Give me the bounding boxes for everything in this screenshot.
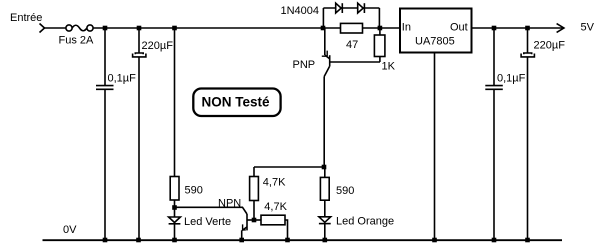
svg-text:220µF: 220µF bbox=[534, 40, 566, 52]
svg-text:47: 47 bbox=[346, 39, 358, 51]
node junction ground x434.5 bbox=[432, 238, 437, 243]
wire junction down to 590 right bbox=[324, 167, 326, 177]
wire NPN collector from LED junction bbox=[175, 207, 248, 214]
node junction ground x138.5 bbox=[136, 238, 141, 243]
svg-text:Led Orange: Led Orange bbox=[336, 215, 394, 227]
wire top rail fuse to resistor 47 bbox=[93, 27, 340, 29]
wire 590 right to LED orange bbox=[324, 200, 326, 217]
svg-text:In: In bbox=[402, 21, 411, 33]
resistor R1 590 left bbox=[170, 177, 179, 201]
wire diode branch top bbox=[323, 7, 379, 9]
wire output rail bbox=[472, 27, 564, 29]
svg-text:PNP: PNP bbox=[293, 59, 316, 71]
svg-text:NPN: NPN bbox=[218, 197, 241, 209]
svg-text:1K: 1K bbox=[382, 61, 396, 73]
wire diode branch left riser bbox=[322, 8, 324, 28]
svg-text:Fus 2A: Fus 2A bbox=[59, 34, 95, 46]
wire branch x527.5 lower bbox=[527, 57, 529, 240]
wire branch x175 rail to resistor bbox=[174, 28, 176, 177]
capacitor C1 0,1uF bbox=[96, 86, 114, 90]
node junction x323.5 y167 bbox=[322, 165, 327, 170]
svg-text:5V: 5V bbox=[581, 22, 595, 34]
svg-text:Led Verte: Led Verte bbox=[184, 216, 231, 228]
svg-text:0,1µF: 0,1µF bbox=[497, 72, 526, 84]
diode D3 Led Verte bbox=[169, 217, 181, 224]
svg-text:0V: 0V bbox=[63, 224, 77, 236]
wire PNP collector down to junction bbox=[323, 77, 325, 168]
wire horizontal 4,7K to ground rail bbox=[285, 220, 288, 240]
node junction top rail x105 bbox=[103, 26, 108, 31]
node junction ground x175 bbox=[172, 238, 177, 243]
wire LED orange to ground rail bbox=[324, 224, 326, 240]
diode D2 1N4004 bbox=[358, 3, 365, 13]
capacitor C2 220uF polarized bbox=[133, 53, 146, 57]
svg-text:0,1µF: 0,1µF bbox=[108, 72, 137, 84]
wire ground rail 0V bbox=[43, 239, 563, 241]
node junction ground x494 bbox=[492, 238, 497, 243]
wire 590 to LED verte bbox=[174, 200, 176, 217]
wire branch x494 upper bbox=[493, 28, 495, 85]
transistor Q2 NPN bbox=[242, 214, 254, 230]
svg-text:Entrée: Entrée bbox=[10, 12, 42, 24]
node junction out x494 bbox=[492, 26, 497, 31]
wire branch x139 lower bbox=[138, 57, 140, 240]
wire branch x494 lower bbox=[493, 89, 495, 240]
capacitor C4 220uF right polarized bbox=[521, 53, 534, 57]
wire vertical 4,7K top lead bbox=[253, 167, 255, 177]
node junction top rail x139 bbox=[137, 26, 142, 31]
wire vertical 4,7K bottom lead bbox=[253, 201, 255, 221]
wire input to fuse bbox=[45, 27, 66, 29]
node junction ground x287.5 bbox=[285, 238, 290, 243]
node junction ground x105 bbox=[103, 238, 108, 243]
svg-text:Out: Out bbox=[450, 22, 468, 34]
wire 1K bottom to PNP base bbox=[379, 57, 381, 63]
node Entrée input terminal bbox=[40, 24, 45, 33]
node junction out x527.5 bbox=[525, 26, 530, 31]
wire 1K top lead bbox=[379, 28, 381, 35]
wire branch x139 upper bbox=[138, 28, 140, 53]
capacitor C3 0,1uF right bbox=[485, 86, 503, 90]
wire branch x105 upper bbox=[104, 28, 106, 85]
diode D4 Led Orange bbox=[319, 217, 331, 224]
diode D1 1N4004 bbox=[336, 3, 343, 13]
resistor R5 47 bbox=[341, 23, 363, 33]
node junction x175 y207.5 bbox=[172, 205, 177, 210]
wire top rail resistor 47 to regulator In bbox=[363, 27, 401, 29]
transistor Q1 PNP bbox=[322, 28, 380, 77]
resistor R2 590 right bbox=[320, 177, 329, 200]
wire branch x527.5 upper bbox=[527, 28, 529, 53]
node junction ground x324.8 bbox=[323, 238, 328, 243]
wire branch x105 lower bbox=[104, 89, 106, 240]
wire regulator ground pin bbox=[434, 53, 436, 241]
NON Testé bubble bbox=[193, 89, 280, 117]
wire collector node to middle wire bbox=[254, 166, 325, 168]
svg-text:4,7K: 4,7K bbox=[264, 201, 287, 213]
resistor R4 4,7K horizontal bbox=[261, 215, 285, 225]
node junction top rail x323 bbox=[321, 26, 326, 31]
svg-text:220µF: 220µF bbox=[142, 40, 174, 52]
fuse F1 Fus 2A bbox=[66, 25, 93, 31]
svg-text:UA7805: UA7805 bbox=[415, 36, 455, 48]
svg-text:590: 590 bbox=[185, 185, 203, 197]
node junction base x254 y219 bbox=[252, 218, 257, 223]
node junction top rail x174.5 bbox=[172, 26, 177, 31]
wire LED verte to ground rail bbox=[174, 224, 176, 240]
op-amp U1 UA7805 regulator box bbox=[400, 9, 472, 53]
svg-text:4,7K: 4,7K bbox=[263, 176, 286, 188]
wire base junction to horizontal 4,7K bbox=[254, 219, 261, 221]
node junction ground x527.5 bbox=[525, 238, 530, 243]
resistor R3 4,7K vertical bbox=[250, 177, 259, 201]
resistor R6 1K bbox=[374, 35, 385, 57]
svg-text:NON Testé: NON Testé bbox=[202, 95, 271, 110]
node junction top rail x380 bbox=[378, 26, 383, 31]
svg-text:1N4004: 1N4004 bbox=[281, 5, 320, 17]
wire diode branch right riser bbox=[378, 8, 380, 28]
svg-text:590: 590 bbox=[336, 185, 354, 197]
node output arrow 5V bbox=[557, 24, 564, 33]
wire NPN emitter to ground bbox=[241, 230, 243, 240]
node junction ground x241.5 bbox=[239, 238, 244, 243]
